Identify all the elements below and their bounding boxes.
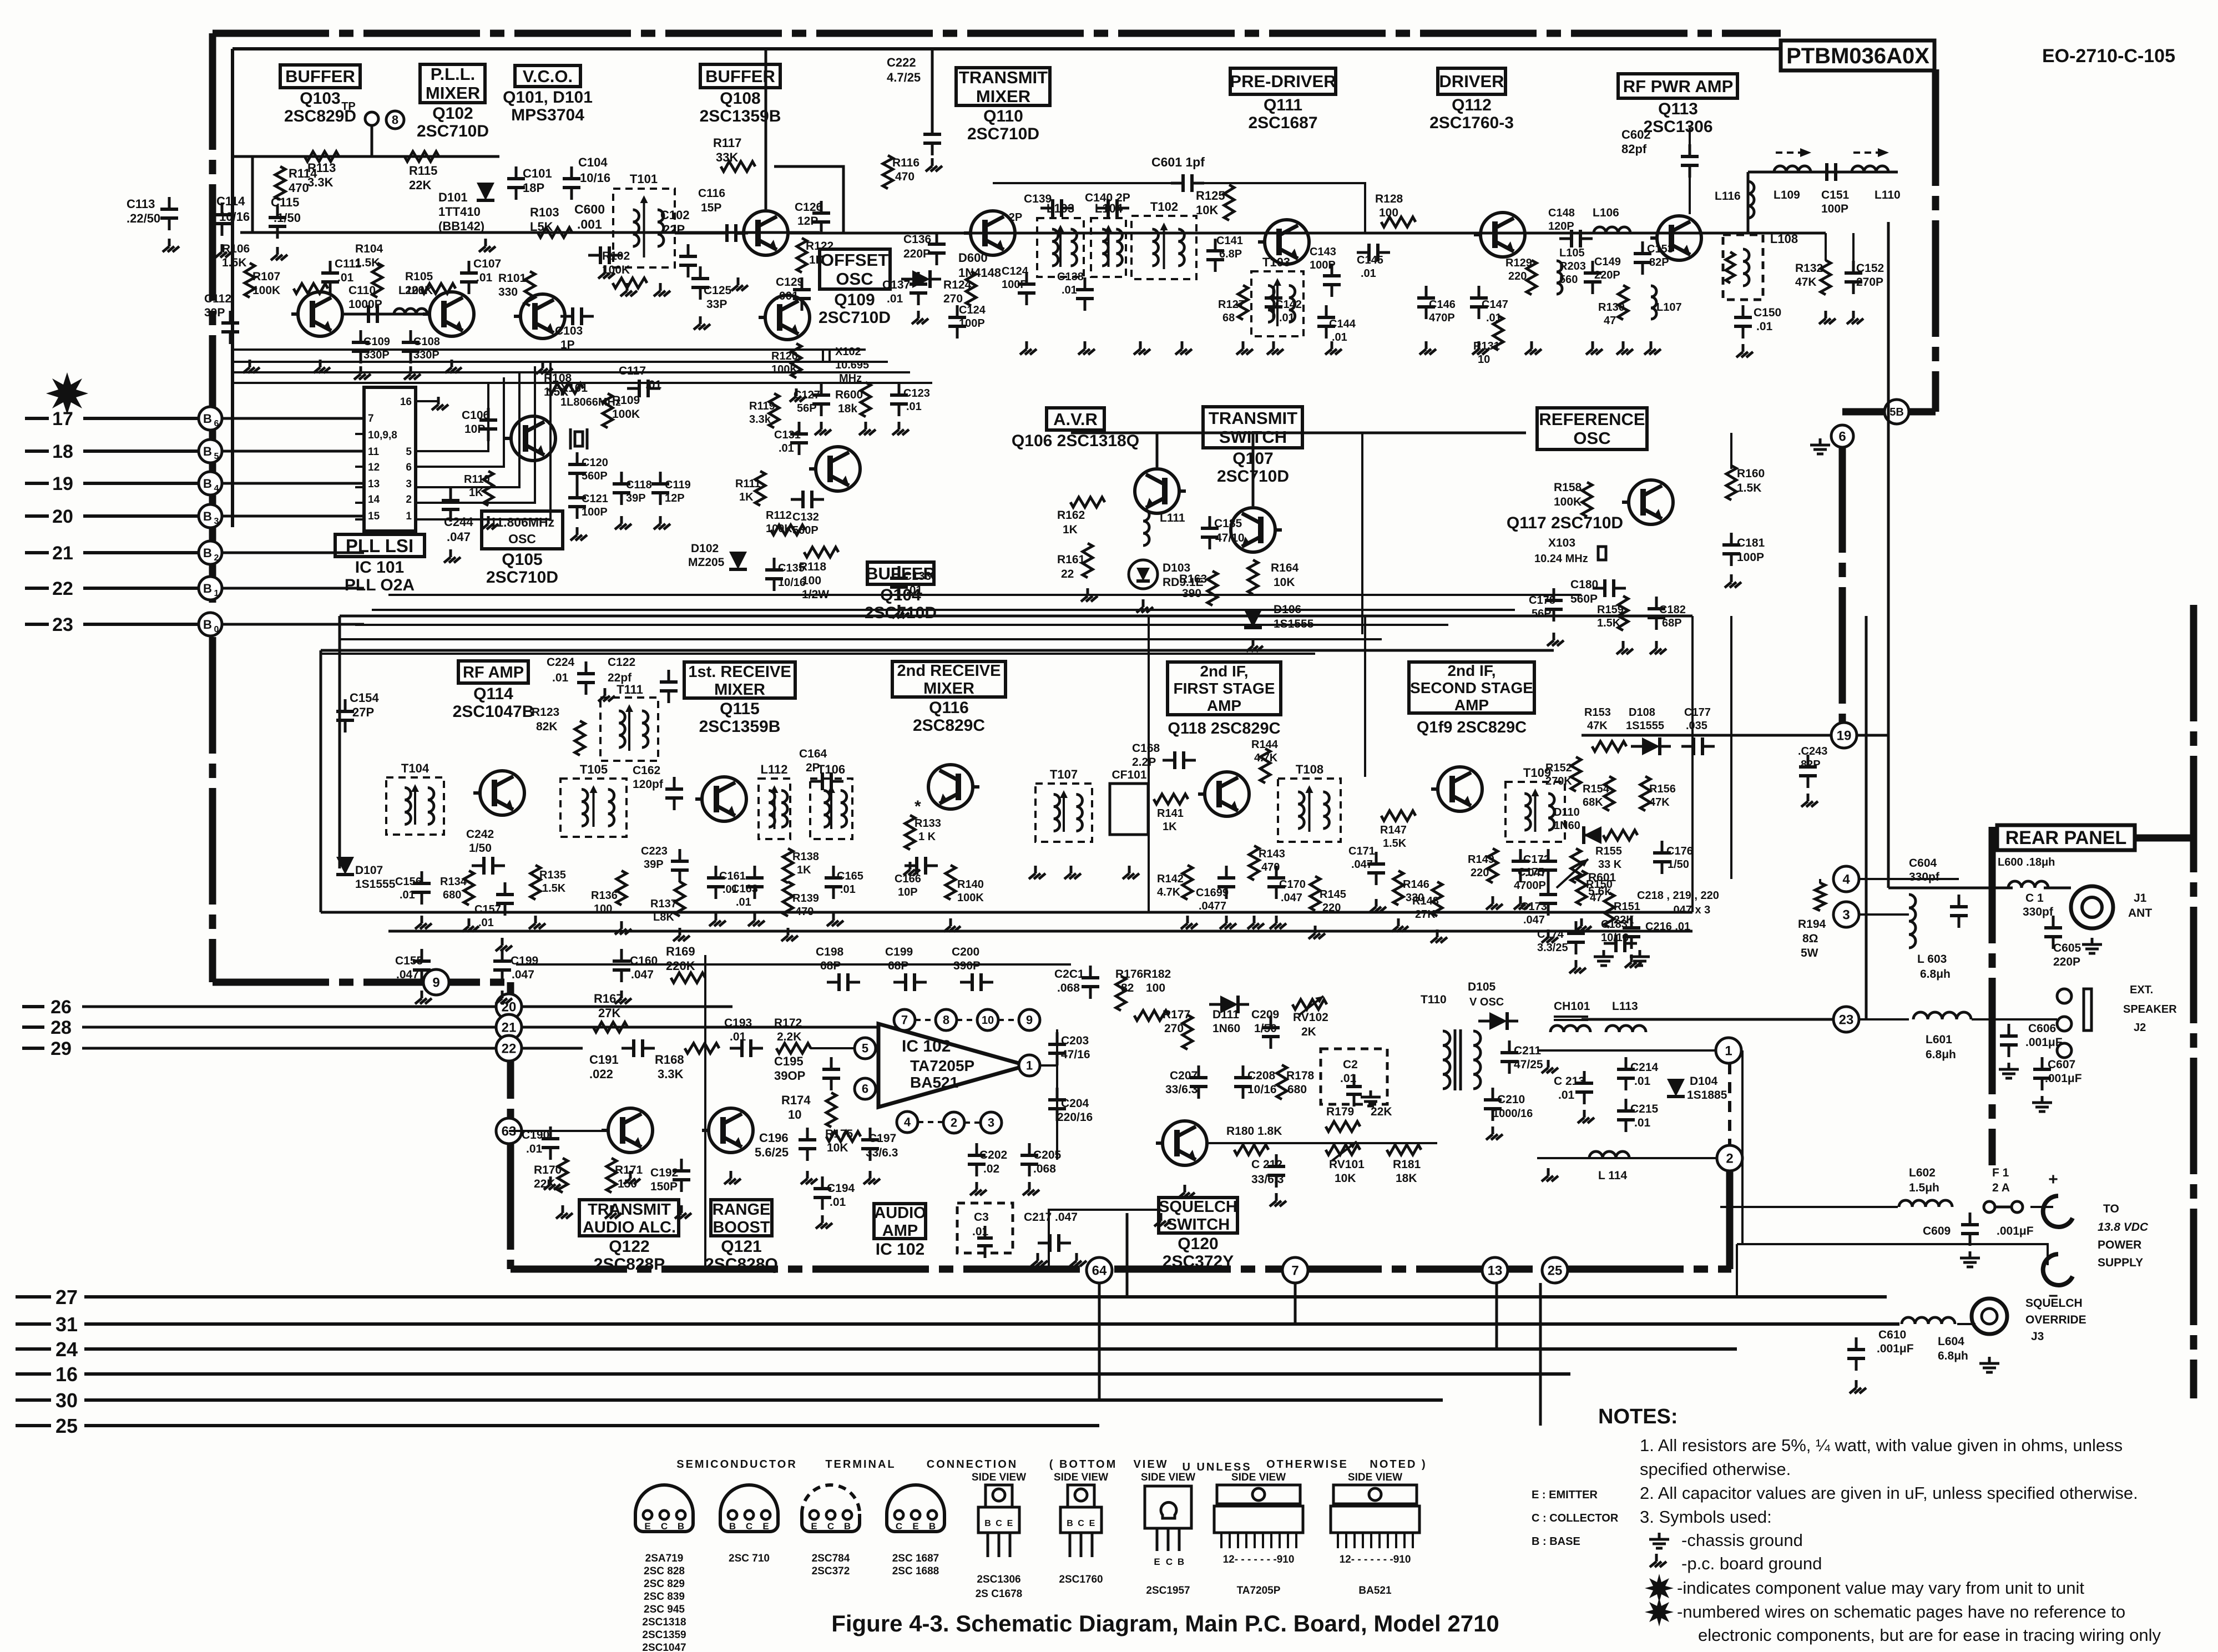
capacitor C117 [619, 365, 662, 397]
capacitor C160 [613, 949, 658, 1004]
svg-text:R133: R133 [915, 817, 941, 830]
svg-text:Q1f9 2SC829C: Q1f9 2SC829C [1417, 719, 1527, 736]
svg-text:2: 2 [406, 494, 412, 506]
svg-text:2SC1306: 2SC1306 [1643, 118, 1712, 136]
svg-text:R116: R116 [892, 156, 919, 169]
transformer T104 [386, 761, 444, 835]
svg-text:6.8P: 6.8P [1219, 248, 1242, 260]
svg-text:MHz: MHz [839, 372, 862, 385]
svg-text:.047: .047 [1523, 914, 1545, 926]
svg-text:16: 16 [55, 1363, 78, 1386]
svg-text:C141: C141 [1216, 235, 1243, 247]
wire [1825, 233, 1827, 261]
wire receiver band left edge [320, 650, 322, 912]
svg-text:220P: 220P [1594, 269, 1620, 281]
svg-text:C197: C197 [868, 1132, 896, 1145]
svg-text:1K: 1K [469, 487, 483, 499]
ground [626, 283, 629, 291]
resistor R162 [1057, 497, 1105, 536]
capacitor C101 [507, 166, 552, 200]
svg-text:R154: R154 [1583, 783, 1610, 795]
svg-text:L113: L113 [1612, 1000, 1638, 1013]
svg-text:1. All resistors are 5%, ¼: 1. All resistors are 5%, ¼ watt, with va… [1640, 1436, 2123, 1455]
svg-text:C2C1: C2C1 [1054, 968, 1084, 981]
svg-text:C222: C222 [887, 55, 916, 69]
resistor R110 [464, 471, 493, 506]
transistor Q105 [511, 416, 555, 461]
ground [1655, 641, 1658, 649]
wire IC101 output [416, 366, 535, 503]
svg-text:R139: R139 [792, 892, 819, 905]
ground [1225, 916, 1228, 923]
svg-text:2SC710D: 2SC710D [819, 309, 891, 327]
svg-text:C121: C121 [582, 493, 608, 505]
ground [1622, 641, 1625, 649]
wire [1049, 1210, 1161, 1269]
capacitor C193 [724, 1017, 763, 1057]
svg-text:33/6.3: 33/6.3 [1251, 1173, 1284, 1186]
capacitor C156 [395, 871, 431, 905]
node label RF AMP (Q114) [453, 661, 534, 721]
node 25 bus line [16, 1414, 1099, 1437]
node 20 / B3 bus line [25, 504, 364, 528]
node 4 [1833, 866, 1859, 892]
node IC102 pin5 [855, 1038, 876, 1059]
diode D104 [1667, 1075, 1727, 1102]
svg-text:100P: 100P [1821, 203, 1848, 215]
svg-text:-chassis ground: -chassis ground [1681, 1530, 1803, 1550]
svg-text:R146: R146 [1403, 878, 1429, 891]
node 6 circle [1831, 425, 1853, 447]
capacitor C606 [1999, 1022, 2063, 1078]
svg-text:Q112: Q112 [1452, 96, 1492, 114]
svg-text:.01: .01 [779, 442, 794, 454]
svg-text:4.7/25: 4.7/25 [887, 70, 921, 84]
capacitor C103 [555, 307, 594, 351]
svg-text:.01: .01 [526, 1143, 543, 1155]
svg-text:MIXER: MIXER [714, 681, 765, 699]
svg-text:T101: T101 [630, 172, 658, 186]
capacitor C181 [1722, 533, 1765, 588]
svg-text:C109: C109 [363, 336, 390, 348]
svg-text:10K: 10K [1335, 1172, 1356, 1185]
svg-text:27P: 27P [352, 705, 374, 719]
capacitor C132 [791, 491, 824, 537]
node 31 bus line [16, 1313, 1899, 1336]
resistor R147 [1380, 811, 1416, 850]
svg-text:220: 220 [1508, 270, 1527, 282]
svg-text:1.5K: 1.5K [542, 882, 566, 895]
svg-text:R103: R103 [530, 205, 559, 219]
resistor R176 [1115, 968, 1143, 1011]
node star filled symbol (legend) [1645, 1598, 1674, 1626]
svg-text:C110: C110 [348, 284, 376, 297]
svg-text:J3: J3 [2031, 1330, 2044, 1343]
svg-text:T104: T104 [401, 761, 430, 775]
svg-text:R172: R172 [774, 1017, 802, 1029]
wire [1859, 1018, 1909, 1020]
transformer T111 [600, 683, 658, 761]
svg-text:29: 29 [50, 1038, 72, 1059]
node 20 [496, 994, 522, 1019]
svg-text:68: 68 [1222, 312, 1235, 324]
svg-text:33/6.3: 33/6.3 [1165, 1083, 1198, 1096]
node numbered-wires note [1677, 1602, 2161, 1645]
svg-text:1K: 1K [809, 254, 824, 266]
svg-text:22: 22 [52, 578, 73, 599]
svg-text:Q106 2SC1318Q: Q106 2SC1318Q [1012, 432, 1139, 450]
svg-text:100: 100 [1379, 206, 1398, 219]
capacitor C125 [691, 266, 732, 311]
wire heavy rear panel top link [2135, 835, 2194, 842]
svg-text:R181: R181 [1393, 1158, 1421, 1171]
ground [534, 916, 537, 923]
resistor R109 [603, 393, 640, 428]
ground [806, 1171, 809, 1179]
svg-text:R132: R132 [1795, 262, 1823, 275]
svg-text:R125: R125 [1196, 189, 1225, 203]
svg-text:2SC372: 2SC372 [812, 1565, 850, 1577]
svg-text:TRANSMIT: TRANSMIT [1209, 408, 1297, 428]
svg-text:OSC: OSC [836, 269, 873, 289]
capacitor C205 [1020, 1143, 1062, 1195]
svg-text:13.8 VDC: 13.8 VDC [2098, 1221, 2149, 1234]
wire long vertical right 2 [1865, 616, 1868, 1019]
svg-text:X102: X102 [835, 346, 861, 358]
svg-text:R170: R170 [534, 1164, 562, 1176]
wire IC101 input stub [355, 502, 364, 504]
resistor R141 [1154, 794, 1188, 833]
capacitor C107 [460, 257, 501, 294]
resistor R101 [498, 271, 535, 306]
capacitor C213 [1554, 1071, 1593, 1104]
resistor R134 [440, 871, 474, 905]
inductor L601 [1913, 1012, 1971, 1061]
resistor R129 [1505, 257, 1537, 295]
svg-text:13: 13 [1488, 1263, 1503, 1278]
svg-text:C148: C148 [1548, 207, 1575, 219]
svg-text:R164: R164 [1271, 562, 1299, 574]
capacitor C211 [1500, 1040, 1543, 1074]
svg-text:J2: J2 [2134, 1022, 2146, 1034]
svg-text:C174: C174 [1537, 928, 1564, 941]
svg-text:C155: C155 [395, 954, 423, 967]
transistor Q120 [1163, 1121, 1207, 1165]
wire [1156, 433, 1159, 467]
svg-text:6: 6 [406, 462, 412, 473]
svg-text:1K: 1K [1163, 821, 1177, 833]
svg-text:1S1885: 1S1885 [1687, 1089, 1727, 1102]
svg-text:.01: .01 [1062, 284, 1077, 296]
svg-text:C120: C120 [582, 457, 608, 469]
svg-text:RANGE: RANGE [713, 1201, 771, 1219]
wire receiver band top rail 2 [321, 649, 1554, 652]
svg-text:16: 16 [400, 396, 412, 408]
svg-text:.001μF: .001μF [1997, 1225, 2034, 1237]
node 1 [1716, 1038, 1741, 1063]
wire [1148, 616, 1150, 912]
resistor R180 [1226, 1125, 1282, 1155]
svg-text:18P: 18P [523, 181, 544, 195]
svg-text:10K: 10K [1274, 576, 1295, 589]
ground [699, 316, 702, 324]
svg-text:2SC 828: 2SC 828 [644, 1565, 685, 1577]
svg-text:C165: C165 [837, 870, 863, 882]
capacitor C163 [731, 866, 764, 908]
inductor L109 [1774, 166, 1811, 201]
wire [1720, 1206, 1898, 1208]
svg-text:28: 28 [50, 1017, 72, 1038]
svg-text:150P: 150P [650, 1180, 678, 1193]
svg-text:2: 2 [214, 553, 219, 563]
svg-text:C136: C136 [903, 233, 931, 246]
svg-text:C192: C192 [650, 1166, 678, 1179]
ground [451, 360, 453, 367]
svg-text:4: 4 [214, 484, 219, 493]
wire Q108 collector to top [765, 49, 767, 209]
capacitor C607 [2032, 1057, 2082, 1112]
svg-text:20: 20 [52, 506, 73, 527]
wire heavy riser to node2 column [1726, 1165, 1734, 1269]
svg-text:.01: .01 [830, 1196, 846, 1209]
capacitor C139 [1024, 193, 1074, 217]
svg-text:AUDIO ALC.: AUDIO ALC. [583, 1219, 676, 1236]
transistor Q109 [765, 295, 810, 340]
svg-text:270: 270 [943, 292, 963, 305]
wire node29 continuation [522, 1047, 583, 1050]
svg-text:18: 18 [52, 441, 73, 462]
resistor R111 [735, 471, 765, 506]
svg-text:100K: 100K [612, 408, 640, 421]
svg-text:82K: 82K [536, 720, 558, 733]
svg-text:L111: L111 [1160, 512, 1185, 524]
svg-text:.001μF: .001μF [2045, 1072, 2082, 1085]
svg-text:L105: L105 [1559, 247, 1585, 259]
resistor R174 [781, 1093, 836, 1127]
connector J1 [2071, 886, 2152, 953]
svg-text:+: + [2048, 1170, 2058, 1189]
node label RANGE BOOST (Q121) [705, 1200, 778, 1274]
capacitor C120 [568, 452, 608, 486]
node 7 [1282, 1257, 1308, 1283]
svg-text:Q115: Q115 [720, 700, 760, 718]
ground [437, 397, 440, 405]
svg-text:R145: R145 [1320, 888, 1346, 901]
resistor R105 [405, 270, 456, 297]
svg-text:AMP: AMP [882, 1222, 918, 1240]
resistor R182 [1134, 968, 1171, 1020]
svg-text:2SC 1688: 2SC 1688 [892, 1565, 939, 1577]
svg-text:RV102: RV102 [1293, 1011, 1328, 1024]
svg-text:C126: C126 [795, 201, 822, 214]
svg-text:7: 7 [368, 413, 374, 425]
svg-text:EXT.: EXT. [2130, 984, 2153, 996]
svg-text:MZ205: MZ205 [688, 556, 725, 569]
svg-text:C602: C602 [1621, 128, 1651, 142]
svg-text:R600: R600 [835, 388, 863, 401]
svg-text:SIDE VIEW: SIDE VIEW [1141, 1472, 1195, 1483]
ground [869, 1171, 872, 1179]
ground [487, 516, 490, 524]
diode D111 [1209, 996, 1249, 1035]
svg-text:9: 9 [1026, 1013, 1033, 1027]
svg-text:1 K: 1 K [918, 831, 936, 843]
svg-text:2: 2 [951, 1116, 957, 1130]
resistor R115 [405, 151, 439, 192]
ground [1530, 341, 1533, 349]
svg-text:C3: C3 [974, 1211, 989, 1224]
node IC102 pin2 [943, 1112, 964, 1133]
svg-text:C198: C198 [816, 946, 844, 958]
svg-text:C177: C177 [1684, 706, 1711, 719]
svg-text:C244: C244 [444, 515, 473, 529]
svg-text:R102: R102 [602, 250, 630, 262]
svg-text:C118: C118 [626, 479, 652, 491]
svg-text:R601: R601 [1588, 871, 1616, 884]
diode D107 [336, 857, 396, 891]
svg-text:56P: 56P [797, 402, 817, 415]
svg-text:L110: L110 [1875, 189, 1901, 201]
node 19 / B4 bus line [25, 472, 364, 495]
ground [1084, 341, 1087, 349]
svg-text:.01: .01 [1634, 1117, 1651, 1129]
svg-text:R175: R175 [825, 1128, 853, 1140]
ground [1591, 341, 1594, 349]
capacitor C177 [1681, 706, 1715, 755]
inductor L112 [759, 762, 790, 839]
node label 11.806MHz OSC (Q105) [482, 511, 563, 587]
svg-text:2S C1678: 2S C1678 [976, 1588, 1023, 1600]
svg-text:18K: 18K [1396, 1172, 1417, 1185]
capacitor C178 [1529, 588, 1563, 622]
svg-text:2nd IF,: 2nd IF, [1447, 662, 1495, 679]
capacitor C208 [1234, 1065, 1277, 1099]
svg-text:68P: 68P [1662, 617, 1682, 629]
svg-text:4.7K: 4.7K [1254, 752, 1278, 764]
svg-text:IC 101: IC 101 [355, 558, 404, 577]
resistor R179 [1326, 1105, 1392, 1131]
svg-text:1.5K: 1.5K [355, 256, 380, 269]
wire receiver band bottom rail 1 [321, 911, 1692, 914]
svg-text:R138: R138 [792, 851, 819, 863]
svg-text:39P: 39P [644, 858, 664, 871]
svg-text:C117: C117 [619, 365, 646, 377]
svg-text:C605: C605 [2053, 942, 2081, 954]
capacitor C209 [1251, 1008, 1280, 1049]
capacitor C116 [698, 187, 748, 242]
wire [1361, 433, 1363, 634]
svg-text:C224: C224 [547, 656, 575, 669]
svg-text:12P: 12P [665, 492, 685, 504]
node 27 bus line [16, 1286, 1887, 1309]
capacitor C131 [774, 422, 808, 455]
svg-text:2SC710D: 2SC710D [967, 125, 1039, 143]
node label TRANSMIT AUDIO ALC (Q122) [579, 1200, 679, 1274]
ground [1275, 916, 1278, 923]
svg-text:Q122: Q122 [609, 1237, 649, 1256]
ground [1397, 918, 1400, 926]
svg-text:C115: C115 [271, 195, 299, 209]
svg-text:5W: 5W [1801, 947, 1818, 959]
svg-text:R123: R123 [532, 706, 559, 719]
transistor Q108 [744, 211, 788, 255]
wire node26 continuation [522, 1006, 732, 1008]
svg-text:C200: C200 [952, 946, 979, 958]
svg-text:47K: 47K [1795, 276, 1817, 289]
svg-text:.047: .047 [1281, 892, 1302, 904]
wire [918, 1121, 943, 1123]
package 2SC1306/2SC1678 (side view) [972, 1472, 1026, 1600]
svg-text:100P: 100P [582, 506, 608, 518]
transformer T105 [560, 762, 627, 837]
svg-text:9: 9 [432, 975, 439, 990]
svg-text:C156: C156 [395, 876, 422, 888]
svg-text:390: 390 [1182, 587, 1201, 600]
svg-text:1S1555: 1S1555 [1626, 720, 1664, 732]
svg-text:R136: R136 [591, 890, 618, 902]
svg-text:C: C [1166, 1557, 1173, 1567]
svg-text:C202: C202 [979, 1149, 1007, 1161]
inductor L604 [1902, 1317, 1968, 1362]
svg-text:L108: L108 [1770, 232, 1798, 246]
svg-text:R105: R105 [405, 270, 433, 283]
resistor R116 [883, 155, 919, 189]
capacitor C149 [1584, 256, 1621, 294]
ground [610, 1205, 613, 1213]
svg-text:L101: L101 [398, 284, 425, 297]
wire IC101 output [416, 372, 519, 487]
svg-text:TRANSMIT: TRANSMIT [959, 68, 1048, 87]
ground [276, 247, 279, 255]
ground [820, 422, 823, 430]
resistor R106 [222, 243, 255, 297]
wire [1736, 1244, 1738, 1297]
svg-text:C142: C142 [1275, 299, 1302, 311]
svg-text:12- - - - - - -910: 12- - - - - - -910 [1223, 1554, 1295, 1565]
ground [562, 1205, 564, 1213]
node 3 [1833, 902, 1859, 927]
svg-text:2SC828Q: 2SC828Q [705, 1255, 778, 1274]
svg-text:C168: C168 [1132, 742, 1160, 755]
svg-text:C131: C131 [774, 429, 801, 441]
svg-text:C176: C176 [1666, 845, 1693, 857]
svg-text:Q102: Q102 [432, 104, 473, 123]
node IC102 pin6 [855, 1078, 876, 1099]
svg-text:270P: 270P [1856, 276, 1883, 289]
svg-text:R153: R153 [1584, 706, 1611, 719]
svg-text:330P: 330P [363, 349, 390, 361]
svg-text:2SC1306: 2SC1306 [977, 1574, 1020, 1585]
svg-text:C119: C119 [665, 479, 691, 491]
svg-text:6.8μh: 6.8μh [1926, 1048, 1956, 1061]
capacitor C185 [1201, 516, 1245, 549]
svg-text:56P: 56P [1532, 608, 1552, 620]
svg-text:B: B [203, 546, 212, 560]
wire heavy to 5B [1842, 408, 1936, 416]
ground [1025, 341, 1028, 349]
svg-text:R140: R140 [957, 878, 984, 891]
package 2SA719 group (bottom view) [635, 1485, 693, 1652]
ground [1492, 896, 1494, 904]
resistor R107 [252, 270, 328, 297]
svg-text:R142: R142 [1157, 873, 1184, 885]
node label TRANSMIT SWITCH (Q107) [1203, 407, 1302, 486]
capacitor C242 [466, 828, 505, 875]
ground [629, 1171, 632, 1179]
ground [1331, 341, 1333, 349]
svg-text:21: 21 [502, 1020, 517, 1035]
ground [1547, 1060, 1550, 1068]
